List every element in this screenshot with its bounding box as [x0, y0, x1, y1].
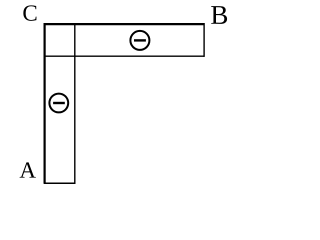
wire: thick top rail C-B [44, 23, 205, 25]
node A label [20, 162, 36, 177]
node C label [23, 5, 36, 20]
wire: horizontal bar bottom edge [45, 55, 204, 57]
wire: horizontal bar right end [203, 23, 205, 57]
node B label [211, 6, 227, 24]
wire: thick left rail C-A [43, 23, 45, 184]
wire: vertical bar bottom end [44, 182, 76, 184]
node: negative charge symbol in horizontal bar [130, 31, 149, 50]
node: negative charge symbol in vertical bar [49, 94, 68, 113]
wire: vertical bar right edge [74, 25, 76, 183]
